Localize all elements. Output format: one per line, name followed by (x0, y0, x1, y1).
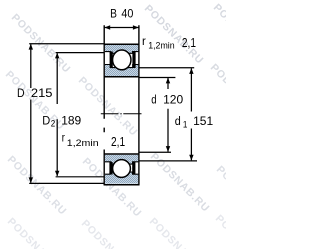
svg-text:PODSNAB.RU: PODSNAB.RU (147, 216, 211, 249)
d1 arrow down (189, 155, 193, 161)
svg-text:1,2min: 1,2min (148, 40, 175, 50)
svg-text:1: 1 (183, 119, 188, 130)
D2 extension line top (56, 52, 104, 54)
inner ring (upper) fill (105, 65, 138, 77)
axis centerline (101, 113, 142, 115)
left side face line (with gap at 2,1 text) (103, 25, 105, 185)
d arrow down (166, 146, 170, 152)
bearing top face line (104, 43, 140, 45)
svg-text:PODSNAB.RU: PODSNAB.RU (5, 216, 69, 249)
outer ring (lower) top edge outline (105, 172, 138, 174)
svg-text:2,1: 2,1 (182, 36, 196, 50)
bearing cross-section drawing (0, 0, 226, 249)
d dimension line (167, 78, 169, 152)
d extension line top (139, 77, 176, 79)
B arrow left (104, 25, 110, 29)
groove shoulder bar left (lower) (109, 162, 112, 175)
ball (lower) (113, 160, 131, 178)
bore face line (lower) (104, 153, 140, 155)
svg-text:151: 151 (193, 114, 213, 128)
D extension line bottom (29, 182, 103, 184)
outer ring (lower) fill (105, 172, 138, 183)
outer ring (upper) bottom edge outline (105, 52, 138, 54)
D2 arrow up (55, 53, 59, 59)
svg-text:r: r (62, 132, 65, 145)
D arrow down (29, 177, 33, 183)
svg-text:PODSNAB.RU: PODSNAB.RU (211, 2, 226, 66)
d1 extension line bottom (139, 160, 197, 162)
inner ring (lower) fill (105, 155, 138, 164)
D2 dimension line (56, 53, 58, 176)
svg-text:PODSNAB.RU: PODSNAB.RU (213, 213, 226, 249)
ball (upper) (113, 50, 131, 70)
svg-text:189: 189 (61, 113, 81, 127)
D2 extension line bottom (56, 176, 104, 178)
outer ring (upper) fill (105, 45, 138, 53)
svg-text:1,2min: 1,2min (67, 139, 99, 149)
d1 dimension line (190, 68, 192, 160)
svg-text:r: r (142, 35, 146, 48)
bearing bottom face line (104, 184, 140, 186)
d arrow up (166, 78, 170, 84)
D2 arrow down (55, 171, 59, 177)
svg-text:2,1: 2,1 (111, 135, 125, 149)
inner ring (lower) bottom edge outline (105, 162, 138, 164)
svg-text:D: D (17, 87, 25, 100)
svg-text:d: d (175, 116, 181, 129)
svg-text:215: 215 (31, 86, 53, 99)
svg-text:40: 40 (121, 8, 133, 21)
svg-text:PODSNAB.RU: PODSNAB.RU (76, 75, 140, 139)
svg-text:120: 120 (163, 93, 183, 107)
svg-text:PODSNAB.RU: PODSNAB.RU (5, 154, 69, 218)
svg-text:d: d (151, 94, 156, 107)
D dimension line (30, 44, 32, 182)
d1 extension line top (139, 67, 194, 69)
groove shoulder bar right (upper) (132, 52, 135, 69)
groove shoulder bar left (upper) (110, 52, 113, 69)
svg-text:2: 2 (51, 118, 56, 129)
right side face line (138, 25, 140, 185)
D arrow up (29, 44, 33, 50)
D extension line top (29, 43, 103, 45)
inner ring (upper) top edge outline (105, 65, 138, 68)
d extension line bottom (139, 151, 171, 153)
svg-text:PODSNAB.RU: PODSNAB.RU (148, 151, 212, 215)
svg-text:D: D (42, 115, 50, 127)
groove shoulder bar right (lower) (132, 162, 135, 175)
svg-text:B: B (110, 8, 117, 21)
bore face line (upper) (104, 76, 140, 78)
B dimension line (104, 27, 139, 29)
d1 arrow up (189, 68, 193, 74)
B arrow right (133, 25, 139, 29)
svg-text:PODSNAB.RU: PODSNAB.RU (79, 218, 143, 249)
svg-text:PODSNAB.RU: PODSNAB.RU (142, 3, 206, 67)
